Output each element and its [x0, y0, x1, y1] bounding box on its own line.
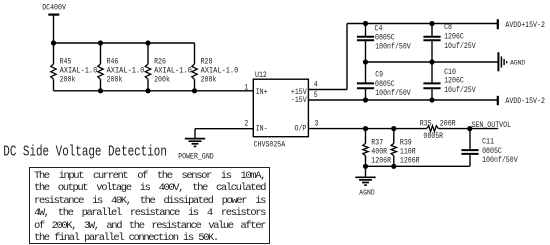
svg-text:200R: 200R [440, 118, 456, 128]
svg-text:IN+: IN+ [256, 87, 268, 97]
svg-text:200k: 200k [107, 75, 123, 85]
svg-text:R35: R35 [420, 118, 432, 128]
power flag DC400V [42, 3, 66, 43]
wire O/P output [308, 128, 498, 130]
svg-text:0805R: 0805R [423, 131, 443, 141]
resistor R39 110R [391, 129, 420, 167]
wire IN- to ground [195, 128, 253, 130]
svg-text:10uf/25V: 10uf/25V [444, 85, 476, 95]
wire output bottom rail [366, 165, 470, 167]
svg-text:100nf/50V: 100nf/50V [482, 155, 518, 165]
power AVDD+15V-2 [498, 19, 545, 30]
resistor R46 200k [98, 43, 145, 91]
note text box [29, 167, 270, 244]
node -15V rail junctions [363, 97, 435, 102]
resistor R28 200k [192, 43, 239, 91]
svg-text:AVDD+15V-2: AVDD+15V-2 [505, 20, 545, 30]
svg-text:AGND: AGND [359, 189, 375, 197]
svg-text:-15V: -15V [291, 95, 307, 105]
svg-text:AGND: AGND [510, 59, 525, 66]
capacitor C4 100nf/50V [357, 24, 411, 63]
capacitor C11 100nf/50V [461, 129, 518, 167]
svg-text:100nf/50V: 100nf/50V [375, 42, 411, 52]
svg-text:IN-: IN- [256, 124, 268, 134]
ground AGND bottom [355, 166, 375, 197]
node bottom-rail junctions [98, 88, 197, 93]
pin 5 [314, 90, 318, 100]
svg-text:200k: 200k [60, 75, 76, 85]
svg-text:1206C: 1206C [444, 76, 464, 86]
capacitor C9 100nf/50V [357, 62, 411, 100]
svg-text:100nf/50V: 100nf/50V [375, 88, 411, 98]
svg-text:SEN_OUTVOL: SEN_OUTVOL [471, 120, 511, 130]
wire +15V pin4 [308, 24, 347, 90]
ground POWER_GND [178, 129, 214, 162]
svg-text:10uf/25V: 10uf/25V [444, 41, 476, 51]
svg-text:5: 5 [314, 90, 318, 100]
node AGND rail junctions [363, 59, 435, 64]
wire top rail [54, 42, 195, 44]
pin 1 [244, 82, 248, 92]
svg-text:2: 2 [244, 119, 248, 129]
resistor R26 200k [145, 43, 192, 91]
op-amp isolation sensor U12 CHVS025A [253, 70, 308, 149]
capacitor C10 10uf/25V [423, 62, 476, 100]
power AVDD-15V-2 [498, 96, 545, 106]
svg-text:200k: 200k [154, 75, 170, 85]
pin 4 [314, 80, 318, 90]
svg-text:O/P: O/P [295, 124, 307, 134]
node +15V rail junctions [363, 21, 435, 26]
svg-text:CHVS025A: CHVS025A [254, 139, 286, 149]
resistor R45 200k [51, 43, 98, 91]
ground AGND right [498, 52, 525, 71]
title text [3, 143, 167, 161]
wire bottom rail to IN+ [54, 90, 254, 92]
svg-text:1206R: 1206R [400, 156, 420, 166]
svg-text:1: 1 [244, 82, 248, 92]
svg-text:3: 3 [315, 118, 319, 128]
svg-text:DC400V: DC400V [42, 3, 66, 13]
svg-text:AVDD-15V-2: AVDD-15V-2 [505, 96, 545, 106]
svg-text:DC Side Voltage Detection: DC Side Voltage Detection [3, 143, 167, 161]
svg-text:1206R: 1206R [371, 156, 391, 166]
net label SEN_OUTVOL [471, 120, 511, 130]
capacitor C8 10uf/25V [423, 22, 476, 62]
node output junctions [363, 126, 473, 169]
resistor R37 400R [363, 129, 391, 167]
wire AGND rail [366, 61, 498, 63]
wire -15V rail [308, 99, 497, 101]
pin 3 [315, 118, 319, 128]
svg-text:U12: U12 [255, 70, 267, 80]
pin 2 [244, 119, 248, 129]
svg-text:POWER_GND: POWER_GND [178, 152, 214, 162]
wire +15V rail [347, 23, 498, 25]
svg-text:200k: 200k [201, 75, 217, 85]
resistor R35 200R [420, 118, 456, 141]
node top-rail junctions [51, 40, 151, 45]
svg-text:4: 4 [314, 80, 318, 90]
